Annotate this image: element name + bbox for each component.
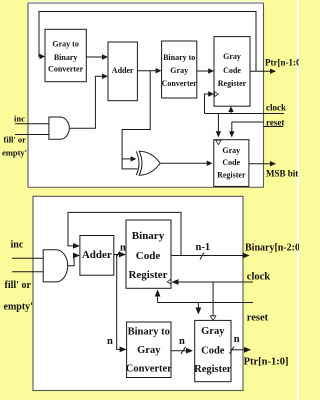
svg-text:Code: Code: [223, 66, 241, 75]
svg-text:clock: clock: [266, 103, 286, 113]
svg-text:Gray: Gray: [201, 326, 225, 337]
svg-text:Binary to: Binary to: [163, 53, 195, 62]
svg-text:clock: clock: [247, 271, 270, 282]
svg-text:empty': empty': [4, 302, 34, 313]
svg-text:n-1: n-1: [196, 242, 211, 253]
svg-text:Register: Register: [128, 269, 167, 281]
svg-text:n: n: [107, 336, 113, 347]
svg-text:reset: reset: [266, 118, 284, 128]
svg-text:Adder: Adder: [82, 249, 112, 261]
svg-text:Code: Code: [136, 250, 161, 262]
svg-text:Converter: Converter: [162, 79, 198, 88]
svg-text:Converter: Converter: [48, 65, 84, 74]
svg-text:inc: inc: [11, 240, 24, 251]
svg-text:n: n: [179, 336, 185, 347]
svg-text:Binary: Binary: [132, 230, 165, 242]
svg-text:Gray: Gray: [222, 146, 240, 155]
svg-text:Gray: Gray: [223, 52, 241, 61]
svg-text:Register: Register: [217, 171, 246, 180]
svg-text:reset: reset: [247, 313, 269, 324]
svg-text:MSB bit: MSB bit: [266, 169, 298, 179]
svg-text:empty': empty': [2, 148, 27, 158]
svg-text:Binary to: Binary to: [128, 327, 170, 338]
svg-text:Code: Code: [222, 158, 240, 167]
svg-text:Converter: Converter: [126, 364, 172, 375]
svg-text:Gray: Gray: [137, 345, 161, 356]
svg-text:Gray to: Gray to: [52, 40, 78, 49]
svg-text:fill' or: fill' or: [5, 280, 32, 291]
svg-text:Ptr[n-1:0]: Ptr[n-1:0]: [265, 58, 299, 68]
svg-text:Register: Register: [218, 79, 247, 88]
svg-text:inc: inc: [14, 114, 25, 124]
svg-text:fill' or: fill' or: [4, 135, 27, 145]
svg-text:Gray: Gray: [170, 66, 188, 75]
svg-text:n: n: [234, 334, 240, 345]
svg-text:Ptr[n-1:0]: Ptr[n-1:0]: [244, 357, 289, 368]
svg-text:Register: Register: [194, 364, 232, 375]
svg-text:Adder: Adder: [112, 66, 134, 75]
svg-text:Code: Code: [201, 346, 225, 357]
svg-text:n: n: [120, 243, 126, 254]
svg-text:Binary[n-2:0: Binary[n-2:0: [245, 243, 299, 254]
svg-text:Binary: Binary: [54, 53, 78, 62]
